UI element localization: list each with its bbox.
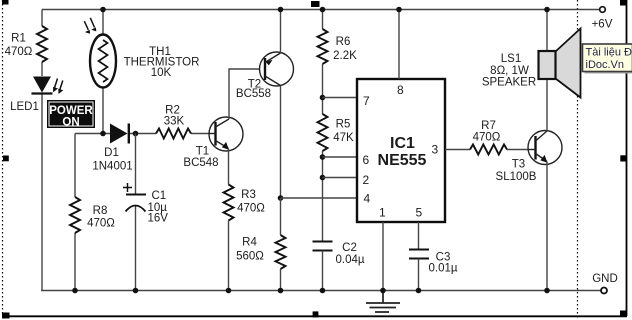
node pin8 rail junction — [396, 7, 402, 13]
wire pin 8 — [398, 10, 400, 80]
svg-text:0.04µ: 0.04µ — [335, 254, 364, 266]
svg-text:SL100B: SL100B — [496, 171, 537, 183]
resistor R2 — [156, 105, 191, 139]
resistor R7 — [470, 120, 507, 155]
wire R3 to ground rail — [228, 221, 230, 291]
svg-text:R7: R7 — [481, 120, 496, 132]
svg-text:R3: R3 — [241, 189, 256, 201]
node R6 rail junction — [320, 7, 326, 13]
svg-text:D1: D1 — [104, 147, 119, 159]
thermistor TH1 — [84, 18, 199, 88]
svg-text:+6V: +6V — [592, 19, 613, 31]
svg-text:BC548: BC548 — [183, 157, 218, 169]
diode D1 — [92, 124, 132, 173]
resistor R8 — [70, 197, 115, 233]
wire pin 7 — [323, 97, 358, 99]
resistor R6 — [318, 29, 358, 64]
svg-text:GND: GND — [592, 273, 618, 285]
svg-text:T3: T3 — [512, 159, 525, 171]
svg-text:R1: R1 — [11, 33, 26, 45]
svg-text:47K: 47K — [333, 132, 354, 144]
wire R6 top — [322, 10, 324, 30]
transistor T3 — [496, 131, 562, 184]
LED LED1 — [10, 77, 63, 114]
wire R5 to C2 — [322, 151, 324, 241]
svg-text:470Ω: 470Ω — [5, 46, 33, 58]
node T3 emitter rail junction — [544, 288, 550, 294]
svg-text:1: 1 — [379, 206, 386, 220]
wire T2 collector down — [280, 86, 282, 199]
node T2 emitter rail junction — [278, 7, 284, 13]
wire top rail to speaker — [546, 10, 548, 52]
wire bottom ground rail — [41, 290, 601, 292]
svg-text:ON: ON — [62, 117, 79, 129]
svg-text:R4: R4 — [242, 237, 257, 249]
resistor R3 — [224, 185, 266, 221]
node R4 top / pin4 junction — [278, 195, 284, 201]
svg-text:SPEAKER: SPEAKER — [482, 77, 536, 89]
wire pin 4 — [281, 197, 358, 199]
svg-text:2: 2 — [363, 173, 370, 187]
svg-text:8: 8 — [397, 83, 404, 97]
svg-text:560Ω: 560Ω — [236, 251, 264, 263]
svg-text:LED1: LED1 — [10, 101, 39, 113]
svg-text:4: 4 — [364, 192, 371, 206]
wire pin 1 — [382, 222, 384, 291]
svg-text:C1: C1 — [152, 190, 167, 202]
speaker LS1 — [482, 29, 581, 98]
node speaker rail junction — [544, 7, 550, 13]
svg-text:IC1: IC1 — [390, 135, 415, 152]
svg-text:R5: R5 — [336, 119, 351, 131]
node thermistor bottom junction — [100, 131, 106, 137]
svg-text:BC558: BC558 — [236, 88, 271, 100]
svg-text:NE555: NE555 — [378, 152, 427, 169]
svg-text:470Ω: 470Ω — [473, 132, 501, 144]
svg-text:Tài liệu Đ: Tài liệu Đ — [586, 47, 632, 59]
wire R6 to R5 — [322, 64, 324, 114]
svg-text:T1: T1 — [196, 146, 209, 158]
resistor R4 — [236, 235, 285, 269]
IC1 NE555 timer — [357, 79, 445, 222]
wire thermistor branch — [102, 10, 104, 134]
wire speaker to T3 collector — [546, 79, 548, 131]
wire C2 to ground rail — [322, 251, 324, 291]
svg-text:33K: 33K — [164, 116, 185, 128]
resistor R5 — [318, 114, 355, 151]
svg-text:R8: R8 — [93, 205, 108, 217]
resistor R1 — [5, 26, 47, 62]
svg-text:iDoc.Vn: iDoc.Vn — [586, 59, 625, 71]
svg-text:10K: 10K — [151, 67, 172, 79]
wire C1 branch — [135, 134, 137, 291]
wire T1 collector to T2 base — [229, 69, 260, 119]
svg-text:2.2K: 2.2K — [333, 50, 357, 62]
node pin2 junction — [320, 175, 326, 181]
svg-text:5: 5 — [416, 206, 423, 220]
terminal GND — [592, 273, 618, 294]
wire R4 to ground rail — [280, 198, 282, 291]
svg-text:R6: R6 — [336, 36, 351, 48]
capacitor C1 — [123, 183, 168, 225]
svg-text:7: 7 — [363, 94, 370, 108]
wire R7 to T3 base — [507, 149, 529, 151]
wire main base line y=133.5 — [75, 133, 210, 135]
svg-text:6: 6 — [363, 153, 370, 167]
wire pin 2 — [323, 177, 358, 179]
node top rail / thermistor junction — [100, 7, 106, 13]
capacitor C2 — [313, 242, 365, 267]
transistor T1 — [183, 117, 243, 169]
node pin6 junction — [320, 154, 326, 160]
node pin7 junction — [320, 95, 326, 101]
svg-text:1N4001: 1N4001 — [92, 161, 132, 173]
watermark tooltip iDoc.Vn — [583, 44, 632, 74]
ground symbol — [366, 291, 400, 313]
wire pin 5 — [418, 222, 420, 249]
svg-text:0.01µ: 0.01µ — [428, 263, 457, 275]
svg-text:3: 3 — [432, 143, 439, 157]
wire C3 to ground rail — [418, 259, 420, 291]
wire T1 emitter to R3 — [228, 149, 230, 185]
terminal +6V — [592, 7, 613, 31]
svg-text:16V: 16V — [148, 213, 169, 225]
wire T3 emitter to ground rail — [546, 162, 548, 291]
transistor T2 — [236, 52, 294, 100]
wire R8 branch — [74, 134, 76, 291]
wire pin 3 to R7 — [445, 149, 470, 151]
label POWER ON — [47, 100, 95, 129]
svg-text:C2: C2 — [342, 242, 357, 254]
svg-text:8Ω, 1W: 8Ω, 1W — [490, 65, 529, 77]
wire T2 emitter to top rail — [280, 10, 282, 54]
capacitor C3 — [409, 250, 458, 275]
svg-text:LS1: LS1 — [501, 53, 521, 65]
wire pin 6 — [323, 156, 358, 158]
wire top supply rail — [42, 9, 600, 11]
svg-text:POWER: POWER — [49, 105, 93, 117]
wire left branch (R1/LED1 column) — [41, 10, 43, 291]
node ground rail junctions — [72, 288, 421, 294]
svg-text:470Ω: 470Ω — [237, 203, 265, 215]
svg-text:470Ω: 470Ω — [87, 218, 115, 230]
node D1 cathode junction — [133, 131, 139, 137]
